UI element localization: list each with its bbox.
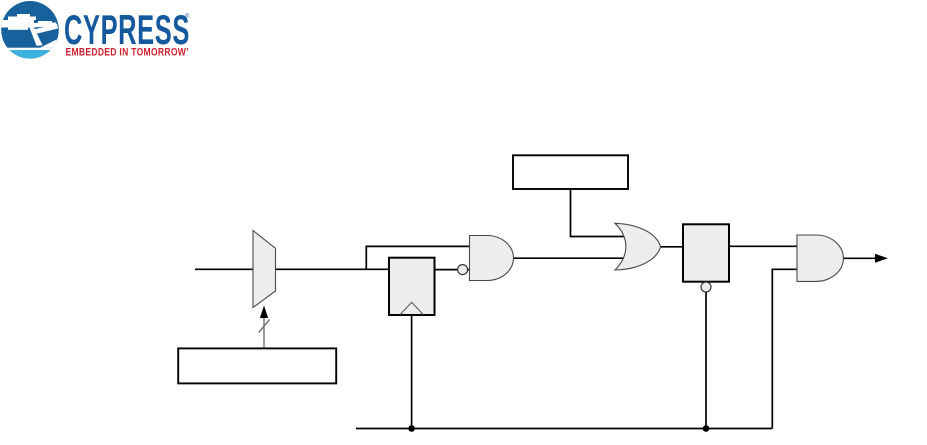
svg-text:®: ® [185,13,190,20]
svg-text:EMBEDDED IN TOMORROW’: EMBEDDED IN TOMORROW’ [66,46,189,58]
